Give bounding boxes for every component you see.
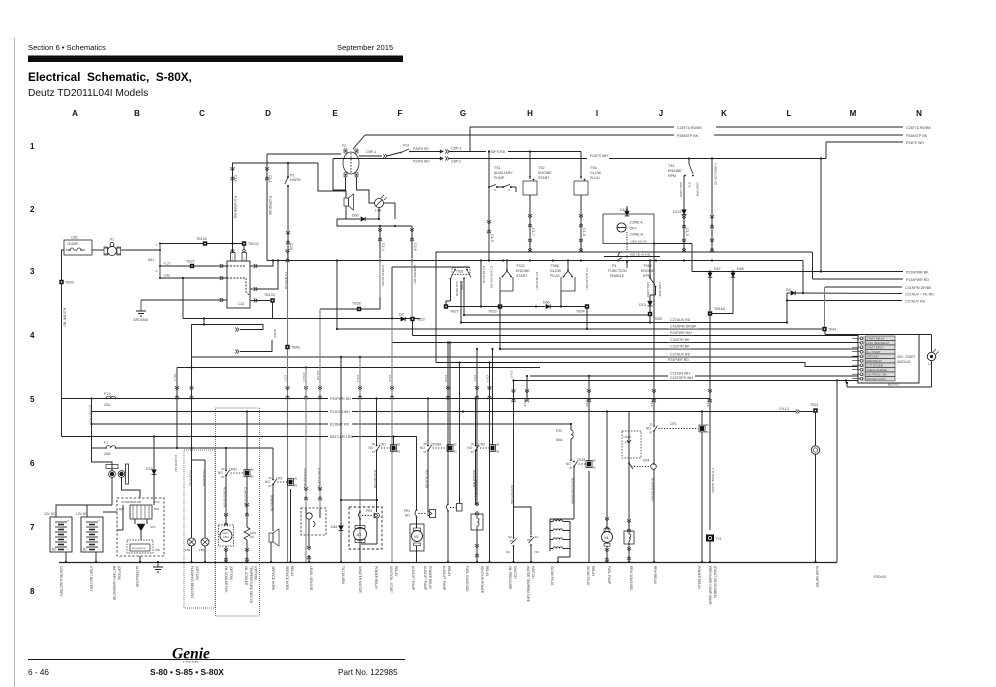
svg-text:C21IGN WH: C21IGN WH	[670, 372, 690, 376]
svg-text:60A: 60A	[556, 438, 563, 442]
svg-text:FB2: FB2	[199, 548, 205, 552]
svg-text:TB33: TB33	[488, 310, 497, 314]
svg-text:START INPUT: START INPUT	[867, 346, 885, 350]
svg-text:(OPTION): (OPTION)	[229, 566, 233, 580]
wire PR1 feed from BAT2	[416, 437, 418, 511]
svg-text:F: F	[398, 109, 403, 118]
svg-text:P104FB RD: P104FB RD	[202, 470, 206, 487]
svg-text:20A: 20A	[104, 452, 111, 456]
svg-text:OUT ENGINE: OUT ENGINE	[867, 364, 884, 368]
diode D68	[732, 270, 734, 272]
hour meter ground	[814, 561, 816, 563]
svg-text:C1 6(A) AUX RD: C1 6(A) AUX RD	[490, 266, 494, 289]
bus P22PWR WH y335	[413, 335, 859, 337]
svg-text:TS2: TS2	[538, 166, 545, 170]
svg-text:S2: S2	[508, 535, 512, 539]
wire P24FE WH stub	[826, 141, 903, 143]
svg-text:P24PWR RD: P24PWR RD	[668, 358, 689, 362]
wire right boundary	[836, 381, 838, 563]
svg-text:A: A	[156, 269, 158, 273]
svg-text:RELAY: RELAY	[591, 566, 595, 577]
svg-text:C9-4: C9-4	[356, 375, 360, 382]
wire riser x821 to P210PWR stub	[820, 159, 822, 272]
svg-text:C5-18: C5-18	[523, 398, 527, 407]
alternator dashed box	[117, 498, 164, 556]
svg-text:TB133: TB133	[264, 293, 275, 297]
wire F2 bottom leads	[333, 159, 346, 191]
svg-text:PLUG: PLUG	[590, 176, 600, 180]
wire beacons feed	[191, 357, 193, 448]
svg-text:87: 87	[649, 431, 653, 435]
service horn speaker	[269, 533, 273, 542]
bus C33XTR BK y349	[500, 348, 858, 350]
svg-text:FLASHING BEACONS: FLASHING BEACONS	[190, 566, 194, 598]
svg-text:R19 STR RD: R19 STR RD	[373, 470, 377, 489]
wire top right drop to P26FS	[469, 127, 471, 151]
svg-text:CHECK ENGINE: CHECK ENGINE	[867, 368, 888, 372]
svg-text:C4 9PIN GR: C4 9PIN GR	[174, 455, 178, 473]
svg-text:C28TTA RD/BK: C28TTA RD/BK	[906, 126, 931, 130]
wire F7 line	[92, 447, 107, 449]
svg-text:85: 85	[294, 484, 298, 488]
wire x392 gray drop	[391, 319, 393, 562]
wire x489.5 drop	[489, 363, 491, 399]
svg-text:AUX MAIN: AUX MAIN	[455, 281, 459, 296]
svg-text:BAT: BAT	[154, 507, 160, 511]
svg-text:HIGH RPM: HIGH RPM	[679, 182, 683, 198]
svg-text:FB1: FB1	[185, 548, 191, 552]
svg-text:E: E	[332, 109, 338, 118]
svg-text:C8P-3: C8P-3	[451, 147, 461, 151]
bus C27AUX RD y322	[461, 322, 787, 324]
wire aux lift coil drop	[427, 511, 429, 513]
wire C2 MUX RD drop	[480, 261, 482, 307]
hour meter	[811, 446, 819, 454]
svg-text:D22: D22	[146, 467, 153, 471]
svg-text:R1W GY/D GN: R1W GY/D GN	[223, 487, 227, 507]
temp switch SW1	[244, 527, 250, 540]
wire C1-1 vertical P12PWR BK	[266, 154, 268, 261]
svg-text:START: START	[516, 274, 528, 278]
wire batteries to ground bus	[65, 552, 67, 562]
svg-text:S/WATER MOTOR: S/WATER MOTOR	[358, 566, 362, 594]
svg-text:HIGH RPM: HIGH RPM	[646, 282, 650, 298]
wire x589 drop	[588, 376, 590, 461]
beacon grounds	[191, 546, 193, 562]
terminal TB22	[190, 264, 194, 268]
svg-text:H: H	[527, 109, 533, 118]
wire x177 riser to F7 line	[176, 368, 178, 449]
oil pressure switch S2	[513, 507, 515, 537]
terminal TB28	[357, 307, 361, 311]
svg-text:P10 4PWR RD: P10 4PWR RD	[233, 196, 237, 219]
svg-text:15 AMP: 15 AMP	[67, 242, 78, 246]
wire riser x436	[435, 252, 437, 363]
wire P26FS RD to TS6	[508, 151, 581, 153]
svg-text:PLUG: PLUG	[550, 274, 560, 278]
terminal TB20	[59, 280, 63, 284]
connector C25 on horn wire	[286, 233, 290, 235]
battery separator switch	[110, 472, 114, 476]
relay aux lift pump contacts	[447, 399, 449, 504]
svg-text:D2: D2	[399, 313, 404, 317]
IGN START module box	[858, 335, 919, 384]
pressure comp valve Y74	[706, 535, 714, 542]
svg-text:Section 6 • Schematics: Section 6 • Schematics	[28, 43, 106, 52]
wire C8P-1 from F2	[359, 155, 382, 157]
svg-text:P1: P1	[110, 238, 114, 242]
wire TB134 junction	[231, 242, 233, 244]
svg-text:ZONE A: ZONE A	[630, 221, 644, 225]
level sensor out	[308, 519, 310, 535]
rpm solenoid	[624, 531, 634, 544]
svg-text:TB20: TB20	[65, 281, 74, 285]
oil cooler temp switch wire	[246, 477, 248, 528]
svg-text:R18 GLOW BK/WH: R18 GLOW BK/WH	[571, 478, 575, 504]
svg-text:CONTROL BATTERY: CONTROL BATTERY	[59, 566, 63, 598]
svg-text:(F3): (F3)	[688, 182, 692, 188]
module row START RELAY	[860, 337, 863, 340]
wire alternator ground	[139, 556, 141, 562]
svg-text:EXC: EXC	[154, 500, 160, 504]
fuel pump wire	[606, 412, 608, 529]
svg-text:4: 4	[30, 331, 35, 340]
svg-text:86: 86	[706, 423, 710, 427]
wire x459 coil riser	[459, 363, 461, 504]
C32 left pin stubs	[219, 265, 227, 267]
svg-text:TB132: TB132	[248, 242, 259, 246]
svg-text:86: 86	[251, 468, 255, 472]
beacon FB2	[201, 538, 209, 546]
relay CR2 ignition power	[475, 399, 477, 446]
level sensor symbol	[306, 513, 312, 519]
wire TS51 right contact drops	[463, 279, 465, 316]
module row START INPUT	[860, 346, 863, 349]
oil cooler fan motor	[219, 525, 234, 546]
svg-text:C1 6(A) 6N WH: C1 6(A) 6N WH	[585, 268, 589, 290]
svg-text:+: +	[98, 519, 100, 523]
C32 top pins	[231, 253, 236, 262]
wire y315 link	[464, 314, 649, 316]
svg-text:P12PWR BK: P12PWR BK	[268, 196, 272, 216]
wire x448 drop	[447, 343, 449, 399]
svg-text:A TEREX BRAND: A TEREX BRAND	[183, 661, 200, 664]
svg-text:M3: M3	[357, 533, 362, 537]
header black bar	[28, 56, 403, 63]
wire P210PWR BK stub	[692, 271, 903, 273]
svg-text:RELAY: RELAY	[485, 566, 489, 577]
svg-text:C24TSPS WH: C24TSPS WH	[510, 485, 514, 504]
svg-text:SWITCH: SWITCH	[513, 566, 517, 579]
svg-text:6 - 46: 6 - 46	[28, 668, 49, 677]
svg-text:C38TTA RD BK: C38TTA RD BK	[317, 468, 321, 489]
svg-text:TB22: TB22	[186, 260, 195, 264]
svg-text:CR1: CR1	[380, 443, 387, 447]
svg-text:2: 2	[30, 205, 35, 214]
wire x306 gray drop	[305, 368, 307, 563]
svg-text:−: −	[98, 548, 100, 552]
wire horn junction to drops	[337, 219, 412, 226]
svg-text:V BRDG GN RD: V BRDG GN RD	[714, 163, 718, 186]
svg-text:CR39A: CR39A	[431, 443, 442, 447]
svg-text:C1-4: C1-4	[381, 243, 385, 251]
svg-text:J: J	[659, 109, 663, 118]
svg-text:GLOW: GLOW	[590, 171, 602, 175]
svg-text:87: 87	[471, 450, 475, 454]
wire bus D column y163	[232, 162, 318, 164]
svg-text:87: 87	[372, 450, 376, 454]
svg-text:CR67: CR67	[229, 468, 237, 472]
module row OUT ENGINE	[860, 364, 863, 367]
svg-text:AUX/LIFT PUMP: AUX/LIFT PUMP	[411, 566, 415, 590]
label B19 BAT RD riser	[91, 399, 93, 449]
svg-text:F22: F22	[556, 429, 562, 433]
wire P24FS WH with connector C8P-2	[333, 158, 443, 160]
wire top feed y154	[267, 153, 341, 155]
svg-text:C1-8: C1-8	[582, 228, 586, 236]
svg-text:IGNITION : START: IGNITION : START	[389, 566, 393, 593]
svg-text:POWER RELAY: POWER RELAY	[428, 566, 432, 590]
wire K61 mid to TB22 to C32	[160, 265, 219, 267]
terminal TB21	[813, 408, 817, 412]
svg-text:NO: NO	[250, 535, 255, 539]
svg-text:86: 86	[496, 443, 500, 447]
svg-text:Electrical Schematic, S-80X,: Electrical Schematic, S-80X,	[28, 70, 192, 84]
svg-text:ZONE B: ZONE B	[630, 233, 644, 237]
bus P24PWR RD y362	[436, 363, 858, 367]
svg-text:AUXILIARY: AUXILIARY	[494, 171, 513, 175]
wire C27AUX RD stub	[787, 300, 902, 302]
svg-text:GROUND: GROUND	[133, 318, 149, 322]
svg-text:D68: D68	[737, 267, 744, 271]
svg-text:P21IGN WH: P21IGN WH	[330, 410, 350, 414]
svg-text:TS51: TS51	[456, 270, 464, 274]
tilt alarm dashed box	[349, 507, 382, 549]
wire C4 8PIN GR vertical gray	[287, 252, 289, 562]
wire TB23 down to P22PWR	[412, 321, 414, 336]
svg-text:OFF: OFF	[630, 227, 638, 231]
svg-text:OIL COOLER: OIL COOLER	[244, 566, 248, 586]
svg-text:(FUNCTION ENABLE): (FUNCTION ENABLE)	[713, 566, 717, 598]
alternator regulator	[127, 540, 153, 553]
ground bus	[59, 562, 837, 564]
svg-text:FUNCTION: FUNCTION	[608, 269, 627, 273]
svg-text:FL2T: FL2T	[164, 262, 171, 266]
wire C41RPM DR/BK stub	[825, 286, 902, 288]
svg-text:85: 85	[496, 450, 500, 454]
svg-text:C9-13: C9-13	[779, 407, 789, 411]
svg-text:85: 85	[706, 430, 710, 434]
svg-text:C5-16: C5-16	[650, 398, 654, 407]
terminal TB23	[410, 317, 414, 321]
svg-text:TB27: TB27	[450, 310, 459, 314]
wire P24FS WH continues	[609, 158, 826, 160]
svg-text:ENGINE FAULT: ENGINE FAULT	[867, 377, 887, 381]
module row ENGINE FAULT	[860, 377, 863, 380]
svg-text:C32: C32	[238, 302, 244, 306]
alternator diode	[137, 524, 145, 531]
svg-text:87: 87	[221, 475, 225, 479]
module row B+ / START	[860, 350, 863, 353]
svg-text:TILT ALARM: TILT ALARM	[341, 566, 345, 584]
fuel pump motor M4	[602, 532, 613, 543]
svg-text:87: 87	[423, 450, 427, 454]
aux pump wires	[416, 517, 418, 528]
svg-text:AUX/LIFT PUMP: AUX/LIFT PUMP	[442, 566, 446, 590]
svg-text:86: 86	[294, 477, 298, 481]
svg-text:N: N	[916, 109, 922, 118]
svg-text:REGULATOR: REGULATOR	[132, 547, 146, 550]
svg-text:86: 86	[397, 443, 401, 447]
svg-text:P26FS RD: P26FS RD	[488, 150, 506, 154]
module row HIGH IDLE RELAY	[860, 341, 863, 344]
svg-text:8: 8	[30, 587, 35, 596]
wire x654 drop from 1000LB line	[653, 244, 655, 426]
connector C9-14 on gray wire	[304, 388, 308, 390]
svg-text:B19BAT RD: B19BAT RD	[330, 423, 350, 427]
svg-text:C4 8PIN GR: C4 8PIN GR	[284, 272, 288, 290]
svg-text:CR15: CR15	[577, 458, 585, 462]
wire left branch from C82	[62, 250, 65, 399]
bus C27AUX RD y355	[192, 356, 859, 358]
svg-text:C1-1: C1-1	[268, 175, 272, 183]
key switch zone select box	[603, 214, 654, 244]
svg-text:Genie: Genie	[172, 646, 210, 663]
switch TS51 AUX MAIN PUMP dashed	[452, 268, 470, 275]
svg-text:FUEL SOLENOID: FUEL SOLENOID	[465, 566, 469, 592]
svg-text:GROUND: GROUND	[867, 355, 879, 359]
svg-text:TB21: TB21	[810, 403, 819, 407]
terminal TB16A	[708, 311, 712, 315]
svg-text:September 2015: September 2015	[337, 43, 393, 52]
svg-text:C2 MUX RD: C2 MUX RD	[482, 266, 486, 284]
fuel solenoid wire	[476, 399, 478, 506]
svg-text:C41RPM DR/BK: C41RPM DR/BK	[670, 325, 697, 329]
wire drop to horn line	[318, 163, 346, 198]
svg-text:D13: D13	[639, 303, 646, 307]
svg-text:GRBK: GRBK	[273, 329, 277, 339]
svg-text:TB16A: TB16A	[714, 307, 726, 311]
hook stub GRBK upper	[203, 319, 205, 325]
svg-text:ENGINE: ENGINE	[538, 171, 552, 175]
svg-text:C14: C14	[234, 175, 238, 182]
svg-text:TS32: TS32	[516, 264, 525, 268]
svg-text:(OPTION): (OPTION)	[195, 566, 199, 580]
svg-text:GRD: GRD	[164, 274, 172, 278]
svg-text:R27 AUX RD: R27 AUX RD	[425, 470, 429, 489]
svg-text:C33XTR BK: C33XTR BK	[670, 345, 690, 349]
wire C14 vertical P10 4PWR RD	[232, 163, 234, 253]
svg-text:−: −	[67, 548, 69, 552]
connector C620 13A dashed box	[622, 431, 641, 458]
svg-text:RELAY: RELAY	[447, 566, 451, 577]
rpm relay ground	[653, 561, 655, 563]
svg-text:C27AUX RD: C27AUX RD	[905, 299, 926, 303]
svg-text:LOW RPM: LOW RPM	[696, 182, 700, 197]
wire F2 to P268STP	[353, 135, 365, 149]
lamp L48	[375, 199, 384, 208]
fuel solenoid	[471, 514, 483, 530]
diode D67	[709, 270, 711, 272]
terminal TB41	[822, 327, 826, 331]
level sensor wires	[305, 368, 307, 509]
svg-text:START RELAY: START RELAY	[867, 337, 885, 341]
wire L2 feed from TB41	[824, 331, 826, 335]
svg-text:C2 MUX WH: C2 MUX WH	[535, 272, 539, 290]
svg-text:1000 LB (A): 1000 LB (A)	[630, 240, 647, 244]
wire beacon feed riser	[191, 325, 193, 358]
wire x803 drop to D4	[802, 261, 804, 294]
lamp L2	[927, 352, 935, 360]
beacon FB1	[188, 538, 196, 546]
svg-text:S1: S1	[535, 535, 539, 539]
bus C24TSPS WH y380	[514, 380, 858, 382]
page left border	[14, 38, 16, 687]
svg-text:TB134: TB134	[196, 237, 207, 241]
svg-text:P268STP BK: P268STP BK	[677, 134, 699, 138]
svg-text:RELAY: RELAY	[290, 566, 294, 577]
svg-text:Y74: Y74	[716, 537, 722, 541]
bus TB23 line y319	[183, 318, 420, 320]
svg-text:F7: F7	[104, 441, 108, 445]
svg-text:C8P-2: C8P-2	[451, 160, 461, 164]
svg-text:SERVICE HORN: SERVICE HORN	[271, 566, 275, 591]
svg-text:RPM: RPM	[668, 174, 676, 178]
svg-text:FAN: FAN	[223, 531, 228, 535]
wire TB41 riser gray	[824, 287, 826, 327]
svg-text:LEVEL SENSOR: LEVEL SENSOR	[309, 566, 313, 591]
wire C32 pin7 up to bus	[258, 261, 278, 290]
aux lift pump motor M2 box	[410, 524, 424, 551]
svg-text:C24TSPS WH: C24TSPS WH	[670, 376, 693, 380]
svg-text:20A: 20A	[104, 403, 111, 407]
terminal TB134	[203, 241, 207, 245]
svg-text:IGNITION POWER: IGNITION POWER	[480, 566, 484, 594]
flashing beacons dotted box	[184, 450, 215, 608]
svg-text:L48: L48	[375, 209, 381, 213]
rpm solenoid wire	[628, 412, 630, 532]
svg-text:C28TTA RD/BK: C28TTA RD/BK	[677, 126, 702, 130]
svg-text:1: 1	[30, 142, 35, 151]
svg-text:87: 87	[268, 484, 272, 488]
hook stub GRBK lower	[240, 340, 272, 352]
svg-text:C28TTA RD BK: C28TTA RD BK	[381, 265, 385, 287]
svg-text:C82: C82	[71, 236, 78, 240]
module row GROUND	[860, 355, 863, 358]
wire separator to alternator	[122, 478, 141, 499]
svg-text:3: 3	[30, 267, 35, 276]
wire horn cluster frame	[345, 206, 347, 219]
svg-text:B: B	[134, 109, 140, 118]
svg-text:HOUR METER: HOUR METER	[815, 566, 819, 588]
wire P134PWR RD stub	[813, 278, 904, 280]
connector C1-4 on wire	[378, 230, 382, 232]
level sensor dashed box	[301, 508, 326, 535]
svg-text:M20: M20	[224, 535, 230, 539]
svg-text:OIL PRESSURE: OIL PRESSURE	[508, 566, 512, 589]
svg-text:C1-5: C1-5	[685, 228, 689, 236]
svg-text:12V DC: 12V DC	[44, 512, 56, 516]
wire x360 tilt drop gray	[359, 357, 361, 562]
alternator winding	[130, 505, 152, 519]
svg-text:C1-9: C1-9	[490, 234, 494, 242]
svg-text:P24FE WH: P24FE WH	[906, 141, 924, 145]
module row OIL PRESS. SW	[860, 373, 863, 376]
svg-text:C9-8: C9-8	[444, 375, 448, 382]
svg-text:B1: B1	[83, 548, 87, 552]
svg-text:STA: STA	[150, 525, 155, 529]
svg-text:NO: NO	[535, 550, 540, 554]
